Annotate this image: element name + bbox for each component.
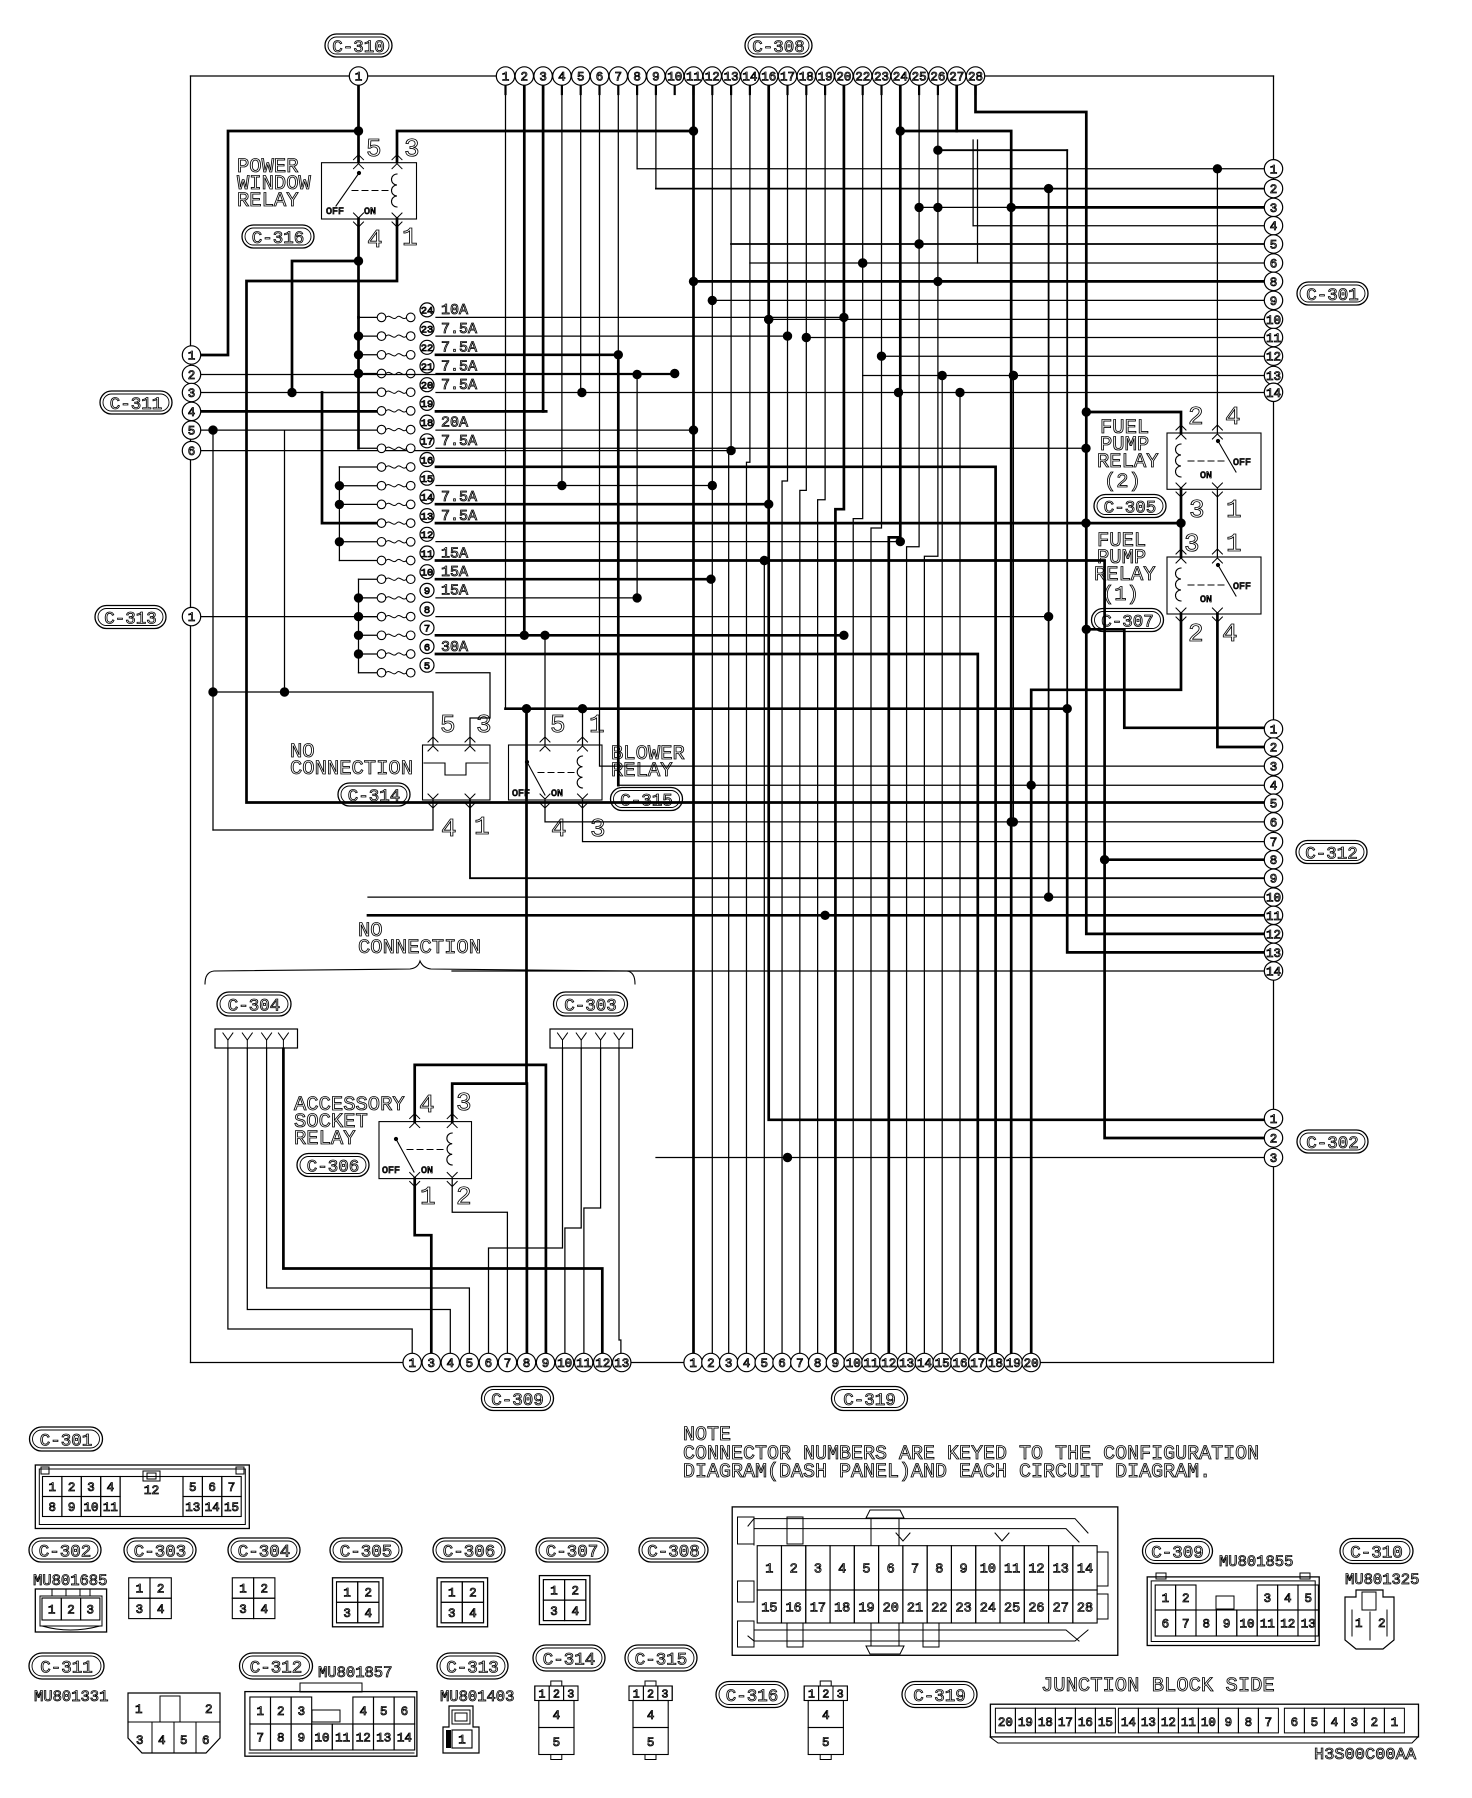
wire fuse 24 output to C-308 pin 20 drop	[436, 316, 844, 318]
connector C-307 pinout	[539, 1576, 590, 1625]
svg-text:8: 8	[523, 1357, 531, 1371]
svg-text:5: 5	[466, 1357, 474, 1371]
svg-text:H3S00C00AA: H3S00C00AA	[1314, 1746, 1417, 1765]
wire fuel pump relay 2 pin 4 riser to C-301 pin 1	[1216, 169, 1218, 433]
connector C-315 pinout	[629, 1686, 672, 1701]
relay C-307 fuel pump relay 1	[1167, 557, 1261, 614]
connector C-302 pinout	[35, 1589, 106, 1632]
svg-text:1: 1	[1162, 1592, 1170, 1606]
connector label C-311	[100, 391, 172, 414]
relay C-316 power window relay	[322, 163, 417, 219]
svg-text:2: 2	[1270, 183, 1278, 197]
svg-text:10A: 10A	[441, 302, 468, 319]
relay C-314 no connection	[423, 745, 491, 800]
svg-text:12: 12	[881, 1357, 896, 1371]
svg-text:3: 3	[550, 1605, 558, 1619]
fuse 19	[377, 407, 386, 416]
svg-text:1: 1	[135, 1703, 143, 1717]
svg-text:3: 3	[539, 71, 547, 85]
svg-text:MU801855: MU801855	[1219, 1553, 1293, 1571]
connector label C-301 bottom	[30, 1427, 103, 1451]
svg-text:26: 26	[930, 71, 945, 85]
wire fuse 11 output to C-302 pin 2	[436, 561, 1264, 1139]
svg-text:11: 11	[1266, 332, 1281, 346]
svg-text:24: 24	[421, 306, 434, 318]
svg-text:15: 15	[935, 1357, 950, 1371]
wire C-319 pin 5 riser	[763, 561, 765, 1354]
wire C-319 pin 19 riser	[1011, 822, 1013, 1353]
svg-text:2: 2	[188, 369, 196, 383]
svg-text:24: 24	[980, 1601, 996, 1616]
svg-text:9: 9	[832, 1357, 840, 1371]
svg-text:3: 3	[136, 1734, 144, 1748]
svg-text:7: 7	[1265, 1716, 1273, 1730]
svg-text:12: 12	[1028, 1563, 1044, 1578]
wire C-301 pin 11	[806, 337, 1264, 339]
svg-text:4: 4	[822, 1709, 830, 1723]
wire fuse 17 left lead	[359, 447, 378, 449]
svg-text:3: 3	[476, 710, 492, 740]
connector label C-310	[325, 34, 392, 57]
wire left border from C-310 down to C-309	[190, 76, 192, 1363]
wire relay C-316 pin 4 to fuse bus A	[357, 219, 360, 317]
svg-text:1: 1	[1270, 724, 1278, 738]
wire riser to blower net	[1066, 150, 1068, 709]
svg-text:3: 3	[188, 387, 196, 401]
wire C-301 pin 5	[731, 243, 1264, 245]
svg-text:4: 4	[1284, 1592, 1292, 1606]
svg-text:C-307: C-307	[1101, 612, 1154, 632]
svg-text:4: 4	[158, 1734, 166, 1748]
connector label C-307	[1092, 609, 1164, 632]
connector label C-313 bottom	[437, 1653, 508, 1679]
wire fuse 13 output to fuel pump relays	[436, 522, 1181, 525]
wire C-301 pin 13	[863, 375, 1264, 377]
wire riser to C-301 pin 6	[977, 140, 979, 263]
connector label C-303	[554, 992, 628, 1016]
svg-text:3: 3	[1270, 202, 1278, 216]
wire C-311 pin 5 net to fuse 18 and C-308 pin 11 drop	[200, 429, 377, 431]
svg-text:9: 9	[1270, 873, 1278, 887]
svg-text:6: 6	[202, 1734, 210, 1748]
svg-text:1: 1	[458, 1734, 466, 1748]
svg-text:5: 5	[380, 1705, 388, 1719]
svg-text:4: 4	[1270, 780, 1278, 794]
svg-text:OFF: OFF	[512, 789, 530, 800]
svg-text:CONNECTION: CONNECTION	[290, 758, 413, 781]
svg-text:ON: ON	[421, 1166, 433, 1177]
svg-text:10: 10	[1266, 314, 1281, 328]
svg-text:19: 19	[858, 1601, 874, 1616]
fuse 17 7.5A	[377, 444, 386, 453]
svg-text:12: 12	[1161, 1716, 1176, 1730]
wire C-308 pin 14 drop to C-319 pin 4	[746, 84, 749, 1353]
switch blade C-315	[527, 762, 545, 795]
svg-text:(1): (1)	[1102, 584, 1139, 607]
svg-text:5: 5	[366, 134, 382, 164]
svg-text:C-306: C-306	[443, 1542, 496, 1562]
svg-text:23: 23	[421, 324, 434, 336]
svg-text:C-314: C-314	[543, 1650, 596, 1670]
connector C-316 pinout	[804, 1686, 847, 1701]
wire fuse 24 left lead	[359, 316, 378, 318]
wire C-301 pin 6	[750, 262, 1264, 264]
svg-text:4: 4	[365, 1607, 373, 1621]
wire C-301 pin 10	[769, 318, 1264, 320]
wire C-312 pin 13 from blower relay net	[506, 709, 1265, 953]
svg-text:2: 2	[157, 1583, 165, 1597]
wire fuse 5 output to relay C-314 pin 3	[436, 673, 490, 745]
svg-text:22: 22	[931, 1601, 947, 1616]
svg-text:4: 4	[1331, 1716, 1339, 1730]
wire fuse 7 left lead	[359, 634, 378, 636]
wire accessory socket relay pin 1 to C-309 pin 3	[415, 1179, 432, 1354]
connector label C-308 top	[745, 34, 812, 57]
relay C-315 blower relay	[509, 745, 603, 800]
wire C-301 pin 6 junction on C-308 pin 22 drop	[859, 259, 867, 267]
svg-text:C-310: C-310	[332, 38, 385, 58]
svg-text:13: 13	[1266, 370, 1281, 384]
svg-text:4: 4	[441, 814, 457, 844]
svg-text:21: 21	[907, 1601, 923, 1616]
svg-text:19: 19	[421, 399, 434, 411]
svg-text:9: 9	[68, 1501, 76, 1515]
svg-text:C-301: C-301	[40, 1431, 93, 1451]
svg-text:13: 13	[724, 71, 739, 85]
svg-text:10: 10	[557, 1357, 572, 1371]
wire C-310 pin 1 drop to relay C-316 pin 5	[357, 84, 360, 162]
svg-text:27: 27	[1053, 1601, 1069, 1616]
svg-text:C-309: C-309	[491, 1391, 544, 1411]
svg-text:1: 1	[765, 1563, 773, 1578]
connector label C-314 bottom	[533, 1645, 605, 1671]
svg-text:1: 1	[550, 1584, 558, 1598]
svg-text:3: 3	[837, 1689, 844, 1702]
svg-text:9: 9	[298, 1732, 306, 1746]
wire C-304 pin 4 to C-309 pin 12	[283, 1049, 602, 1353]
svg-text:20: 20	[883, 1601, 899, 1616]
svg-text:10: 10	[314, 1732, 329, 1746]
svg-text:16: 16	[786, 1601, 802, 1616]
wire relay C-315 pin 5 riser	[544, 635, 546, 745]
wire C-308 pin 1 drop to blower net	[505, 84, 507, 709]
svg-text:15: 15	[761, 1601, 777, 1616]
svg-text:14: 14	[421, 493, 434, 505]
svg-text:11: 11	[686, 71, 701, 85]
svg-text:6: 6	[485, 1357, 493, 1371]
wire fuse 10 output	[436, 578, 711, 581]
connector C-304 box	[215, 1029, 298, 1048]
svg-text:3: 3	[404, 134, 420, 164]
svg-text:6: 6	[1270, 816, 1278, 830]
svg-text:4: 4	[647, 1709, 655, 1723]
wire C-312 pin 6 from relay C-315 pin 4	[545, 800, 1264, 822]
connector C-303 pinout	[129, 1578, 150, 1598]
wire C-311 pin 4 to fuse 19	[200, 410, 377, 413]
connector label C-314	[338, 783, 410, 806]
wire fuse 14 output	[436, 503, 769, 506]
svg-text:5: 5	[550, 710, 566, 740]
fuse 21 7.5A	[377, 369, 386, 378]
fuse 24 10A	[377, 313, 386, 322]
svg-text:5: 5	[1304, 1592, 1312, 1606]
svg-text:18: 18	[421, 418, 434, 430]
wire C-301 pin 2	[656, 188, 1264, 190]
connector label C-306 bottom	[433, 1538, 505, 1562]
svg-text:4: 4	[359, 1705, 367, 1719]
svg-text:20A: 20A	[441, 414, 468, 431]
svg-text:5: 5	[822, 1736, 830, 1750]
wire C-301 pin 8 run	[694, 280, 1265, 283]
wire C-312 pin 9 from relay C-314 pin 1	[470, 800, 1264, 878]
svg-text:26: 26	[1028, 1601, 1044, 1616]
svg-text:7: 7	[1182, 1618, 1190, 1632]
wire fuse 16 output to C-319 pin 18	[436, 467, 996, 1353]
wire C-313 pin 1 to fuse 8	[200, 616, 377, 618]
svg-text:5: 5	[761, 1357, 769, 1371]
wire C-308 pin 25 drop to C-319 pin 13	[907, 84, 920, 1353]
svg-text:1: 1	[448, 1587, 456, 1601]
svg-text:2: 2	[277, 1705, 285, 1719]
wire C-312 pin 10	[368, 896, 1264, 898]
svg-text:9: 9	[960, 1563, 968, 1578]
wire C-308 pin 4 drop	[561, 84, 563, 486]
wire C-304 pin 3 to C-309 pin 5	[267, 1049, 470, 1353]
wire C-308 pin 13 drop to C-319 pin 3	[729, 84, 731, 1353]
svg-text:23: 23	[874, 71, 889, 85]
wire fuel pump relay 1 pin 3 riser	[1180, 523, 1183, 557]
fuse 9 15A	[377, 594, 386, 603]
svg-text:2: 2	[1378, 1617, 1386, 1631]
wire blower relay C-315 pin 1 riser	[582, 709, 584, 745]
fuse 18 20A	[377, 425, 386, 434]
svg-text:15: 15	[1098, 1716, 1113, 1730]
svg-text:19: 19	[1006, 1357, 1021, 1371]
connector C-313 pinout	[443, 1706, 479, 1753]
svg-text:3: 3	[456, 1088, 472, 1118]
wire branch from pin 4 drop to long net	[292, 261, 359, 393]
connector C-310 pinout	[1345, 1590, 1394, 1649]
connector C-306 pinout	[437, 1578, 488, 1627]
svg-text:7: 7	[504, 1357, 512, 1371]
svg-text:C-302: C-302	[39, 1542, 92, 1562]
wire fuse bus C	[358, 579, 360, 673]
wire fuse 22 output	[436, 353, 618, 356]
svg-text:5: 5	[1270, 239, 1278, 253]
svg-text:10: 10	[1266, 892, 1281, 906]
svg-text:C-301: C-301	[1306, 286, 1359, 306]
wire C-303 pin 3 to C-309 pin 11	[584, 1049, 601, 1353]
svg-text:14: 14	[917, 1357, 932, 1371]
node C-313 pin 1	[182, 607, 200, 625]
fuse 15	[377, 481, 386, 490]
svg-text:2: 2	[205, 1703, 213, 1717]
svg-text:28: 28	[1077, 1601, 1093, 1616]
svg-text:C-319: C-319	[913, 1687, 966, 1707]
wire riser C-319 pin 15	[941, 376, 943, 1354]
svg-text:OFF: OFF	[326, 207, 344, 218]
svg-text:14: 14	[742, 71, 757, 85]
wire C-308 pin 27 drop junction at C-301 pin 5	[915, 240, 923, 248]
svg-text:7: 7	[615, 71, 623, 85]
svg-text:3: 3	[567, 1689, 574, 1702]
wire long net C-311 pin 3 fuse 20 to C-301 pin 14	[200, 392, 377, 394]
svg-text:3: 3	[1270, 761, 1278, 775]
svg-text:C-303: C-303	[134, 1542, 187, 1562]
svg-text:8: 8	[814, 1357, 822, 1371]
wire C-308 pin 7 drop	[617, 84, 619, 355]
switch blade C-306	[396, 1139, 414, 1172]
svg-text:4: 4	[558, 71, 566, 85]
svg-text:4: 4	[551, 814, 567, 844]
svg-text:2: 2	[1270, 742, 1278, 756]
wire riser to C-301 pin 2	[1048, 189, 1050, 898]
svg-text:12: 12	[705, 71, 720, 85]
svg-text:1: 1	[136, 1583, 144, 1597]
connector label C-315	[611, 788, 683, 811]
svg-text:1: 1	[539, 1689, 546, 1702]
wire C-301 pin 1	[637, 168, 1264, 170]
connector label C-316 bottom	[716, 1682, 788, 1708]
svg-text:1: 1	[502, 71, 510, 85]
svg-text:C-302: C-302	[1306, 1134, 1359, 1154]
svg-text:C-304: C-304	[228, 996, 281, 1016]
svg-text:DIAGRAM(DASH PANEL)AND EACH CI: DIAGRAM(DASH PANEL)AND EACH CIRCUIT DIAG…	[683, 1461, 1211, 1484]
wire fuse 23 left lead	[359, 335, 378, 337]
svg-text:8: 8	[633, 71, 641, 85]
wire fuse 8 output	[436, 616, 1049, 618]
svg-text:2: 2	[469, 1587, 477, 1601]
svg-text:18: 18	[834, 1601, 850, 1616]
wire C-312 pin 7 from relay C-315 pin 3	[583, 800, 1265, 842]
wire relay C-316 pin 1 to C-312 pin 5	[247, 219, 1265, 803]
svg-text:ON: ON	[364, 207, 376, 218]
svg-text:1: 1	[589, 710, 605, 740]
wire C-312 pin 14	[452, 970, 1264, 972]
svg-text:20: 20	[836, 71, 851, 85]
svg-text:ON: ON	[1200, 471, 1212, 482]
wire fuse 12 left lead	[339, 541, 377, 543]
svg-text:MU801325: MU801325	[1345, 1571, 1419, 1589]
connector label C-313	[95, 606, 166, 629]
svg-text:3: 3	[1264, 1592, 1272, 1606]
wire fuel pump relay 2 pin 2 feed	[1086, 412, 1181, 433]
wire fuse 20 left lead to bold riser	[322, 392, 377, 394]
wire accessory socket relay pin 3 to C-309 pin 8	[452, 1084, 527, 1353]
connector label C-305 bottom	[330, 1538, 402, 1562]
svg-text:10: 10	[667, 71, 682, 85]
svg-text:7: 7	[228, 1481, 236, 1495]
connector label C-303 bottom	[124, 1538, 196, 1562]
connector C-304 pinout	[232, 1578, 253, 1598]
connector label C-312 bottom	[240, 1653, 313, 1679]
svg-text:2: 2	[1270, 1133, 1278, 1147]
svg-text:OFF: OFF	[1233, 582, 1251, 593]
svg-text:14: 14	[1266, 387, 1281, 401]
svg-text:1: 1	[1270, 1113, 1278, 1127]
svg-text:10: 10	[1201, 1716, 1216, 1730]
svg-text:12: 12	[595, 1357, 610, 1371]
svg-text:8: 8	[1245, 1716, 1253, 1730]
wire fuse 12 output	[436, 541, 900, 543]
svg-text:MU801331: MU801331	[34, 1688, 108, 1706]
wire riser from blower net to accessory relay net	[525, 709, 528, 1084]
wire C-308 pin 26 branch to riser	[938, 149, 1067, 151]
connector label C-305	[1094, 495, 1166, 518]
svg-text:C-315: C-315	[635, 1650, 688, 1670]
svg-text:4: 4	[743, 1357, 751, 1371]
connector label C-315 bottom	[625, 1645, 697, 1671]
svg-text:12: 12	[1266, 351, 1281, 365]
svg-text:4: 4	[553, 1709, 561, 1723]
svg-text:18: 18	[799, 71, 814, 85]
wire C-308 pin 20 drop to C-319 pin 9	[835, 84, 843, 1353]
svg-text:13: 13	[1053, 1563, 1069, 1578]
svg-text:4: 4	[367, 225, 383, 255]
svg-text:14: 14	[1121, 1716, 1136, 1730]
svg-text:7: 7	[424, 624, 430, 636]
svg-text:JUNCTION BLOCK SIDE: JUNCTION BLOCK SIDE	[1041, 1675, 1275, 1698]
fuse 13 7.5A	[377, 519, 386, 528]
svg-text:3: 3	[136, 1603, 144, 1617]
svg-text:16: 16	[761, 71, 776, 85]
svg-text:11: 11	[1181, 1716, 1196, 1730]
svg-text:9: 9	[1270, 295, 1278, 309]
nodes C-301 pins	[1264, 160, 1282, 178]
nodes C-302 pins	[1264, 1109, 1282, 1127]
svg-text:8: 8	[48, 1501, 56, 1515]
wire C-308 pin 27 to C-319 pin 19 trunk	[957, 84, 1012, 1353]
wire C-308 pin 22 drop to C-319 pin 10	[853, 84, 862, 1353]
wire fuse 10 left lead	[359, 578, 378, 580]
wire fuse 11 left lead	[339, 560, 377, 562]
svg-text:11: 11	[1004, 1563, 1020, 1578]
svg-text:12: 12	[421, 530, 434, 542]
wire fuse 17 output to fuel pump relay riser	[436, 447, 1086, 449]
svg-text:11: 11	[863, 1357, 878, 1371]
svg-text:1: 1	[1270, 163, 1278, 177]
svg-text:2: 2	[1188, 619, 1204, 649]
svg-text:C-305: C-305	[340, 1542, 393, 1562]
svg-text:3: 3	[1351, 1716, 1359, 1730]
svg-text:5: 5	[189, 1481, 197, 1495]
wire fuse 21 left lead	[359, 373, 378, 375]
wire C-304 pin 2 to C-309 pin 4	[247, 1049, 450, 1353]
svg-text:1: 1	[355, 71, 363, 85]
wire C-308 pin 3 drop to fuse 19	[542, 84, 545, 411]
fuse 16	[377, 463, 386, 472]
svg-text:5: 5	[1270, 798, 1278, 812]
svg-text:6: 6	[188, 445, 196, 459]
svg-text:11: 11	[1260, 1618, 1275, 1632]
svg-text:2: 2	[68, 1481, 76, 1495]
svg-text:2: 2	[647, 1689, 654, 1702]
svg-text:4: 4	[1222, 619, 1238, 649]
svg-text:5: 5	[424, 661, 430, 673]
svg-text:3: 3	[343, 1607, 351, 1621]
svg-text:15A: 15A	[441, 583, 468, 600]
svg-text:14: 14	[1266, 966, 1281, 980]
wire fuse 8 left lead	[359, 616, 378, 618]
svg-text:C-309: C-309	[1151, 1543, 1204, 1563]
svg-text:25: 25	[912, 71, 927, 85]
svg-text:23: 23	[955, 1601, 971, 1616]
svg-text:1: 1	[689, 1357, 697, 1371]
svg-text:3: 3	[298, 1705, 306, 1719]
fuse 12	[377, 538, 386, 547]
svg-text:9: 9	[542, 1357, 550, 1371]
nodes C-311 pins	[182, 346, 200, 364]
